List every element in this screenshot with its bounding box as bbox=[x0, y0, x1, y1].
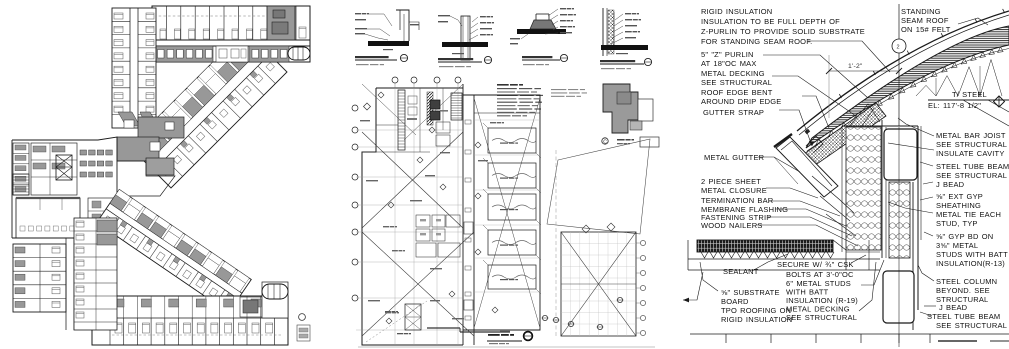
svg-text:SEE STRUCTURAL: SEE STRUCTURAL bbox=[701, 78, 772, 87]
centre core gray blocks bbox=[138, 117, 184, 138]
leader: metal tie bbox=[888, 202, 933, 213]
svg-text:BOARD: BOARD bbox=[721, 297, 749, 306]
diagonal wing B dividers lower side bbox=[97, 209, 106, 223]
svg-text:Z-PURLIN TO PROVIDE SOLID SUBS: Z-PURLIN TO PROVIDE SOLID SUBSTRATE bbox=[701, 27, 865, 36]
large X slope diagonals left bbox=[362, 132, 463, 228]
leader: secure bolts bbox=[851, 255, 866, 263]
leader: fastening strip bbox=[768, 217, 852, 236]
svg-text:EL: 117'-8 1/2": EL: 117'-8 1/2" bbox=[928, 101, 981, 110]
svg-text:STEEL TUBE BEAM: STEEL TUBE BEAM bbox=[927, 312, 1000, 321]
svg-text:2: 2 bbox=[897, 45, 900, 51]
drip edge dark block bbox=[805, 129, 811, 135]
bottom wing dividers bbox=[109, 318, 111, 345]
right detail drawing: curved roof edge section bbox=[683, 4, 1009, 347]
svg-text:METAL DECKING: METAL DECKING bbox=[701, 69, 765, 78]
corridor door marks bbox=[465, 120, 471, 124]
grid bubbles top bbox=[392, 77, 398, 83]
column centerline through wall bbox=[898, 127, 900, 347]
leader: metal decking bottom bbox=[859, 262, 876, 311]
detail 2: expansion joint detail bbox=[438, 15, 450, 16]
corridor double line bbox=[462, 84, 464, 345]
svg-text:J BEAD: J BEAD bbox=[936, 180, 965, 189]
scattered tiny labels bbox=[366, 180, 378, 181]
svg-text:GUTTER STRAP: GUTTER STRAP bbox=[703, 108, 764, 117]
dark activity room bottom bbox=[240, 297, 262, 317]
bottom wing gray toilet blocks bbox=[114, 299, 124, 307]
diagonal wing A gray toilets upper side near corridor bbox=[157, 164, 164, 171]
corridor vertical bbox=[65, 238, 67, 330]
interior walls top-left bbox=[376, 124, 398, 126]
dimension 1ft-2in bbox=[828, 55, 830, 118]
top wing room dividers bbox=[165, 6, 167, 40]
stair ladder 2 bbox=[451, 93, 462, 120]
wall: batt insulation column 1 bbox=[846, 127, 881, 250]
elevator shafts bbox=[430, 100, 440, 109]
diagonal wing B corridor bbox=[106, 209, 238, 299]
svg-text:INSULATION(R-13): INSULATION(R-13) bbox=[936, 259, 1005, 268]
dark equipment room top right bbox=[267, 6, 295, 40]
diagonal wing B gray toilets lower side near corridor bbox=[120, 221, 127, 228]
right section outline bbox=[463, 95, 540, 330]
svg-text:TERMINATION BAR: TERMINATION BAR bbox=[701, 196, 774, 205]
dining room bbox=[16, 198, 80, 238]
lower-left dividers/beds bbox=[13, 257, 40, 259]
svg-text:SECURE W/ ¾" CSK: SECURE W/ ¾" CSK bbox=[777, 260, 854, 269]
leader: insulate cavity bbox=[888, 143, 934, 150]
elevator core with X bbox=[56, 155, 72, 180]
svg-text:SEE STRUCTURAL: SEE STRUCTURAL bbox=[936, 171, 1007, 180]
Z-purlin teeth below band bbox=[816, 139, 822, 145]
svg-text:SHEATHING: SHEATHING bbox=[936, 201, 981, 210]
vertical wing corridor bbox=[129, 8, 131, 128]
tilted quad roof area bbox=[547, 139, 650, 234]
diagonal wing A outline bbox=[129, 30, 287, 188]
vertical wing outline bbox=[112, 8, 156, 128]
leader: roof edge bent bbox=[802, 96, 829, 128]
crickets (X-rect) column bbox=[488, 128, 536, 153]
top wing beds bbox=[160, 29, 166, 39]
right end rooms bottom wing bbox=[262, 282, 288, 318]
wall face lines bbox=[841, 127, 843, 252]
leader: sealant bbox=[752, 254, 788, 271]
diagonal wing B beds lower side bbox=[103, 216, 112, 225]
left sheet: overall floor plan bbox=[12, 6, 310, 345]
svg-text:⅝" SUBSTRATE: ⅝" SUBSTRATE bbox=[721, 288, 780, 297]
scattered diamond markers bbox=[378, 92, 384, 98]
leader: membrane flashing bbox=[775, 209, 846, 226]
svg-text:RIGID INSULATION: RIGID INSULATION bbox=[701, 7, 772, 16]
svg-text:SEAM ROOF: SEAM ROOF bbox=[901, 16, 949, 25]
svg-text:BEYOND. SEE: BEYOND. SEE bbox=[936, 286, 990, 295]
bottom wing beds bbox=[115, 323, 122, 333]
svg-text:ROOF EDGE BENT: ROOF EDGE BENT bbox=[701, 88, 773, 97]
roof plan outline left section bbox=[376, 87, 463, 89]
svg-text:AT 18"OC MAX: AT 18"OC MAX bbox=[701, 59, 757, 68]
svg-text:SEE STRUCTURAL: SEE STRUCTURAL bbox=[936, 140, 1007, 149]
bottom wing outline bbox=[92, 296, 288, 345]
detail 1: parapet detail bbox=[355, 13, 361, 14]
svg-text:STANDING: STANDING bbox=[901, 7, 941, 16]
gray utility rooms near wing B start bbox=[97, 220, 117, 232]
right section row lines bbox=[474, 119, 540, 121]
rooms right of dining bbox=[88, 198, 117, 238]
lower-left rooms outline bbox=[13, 244, 66, 312]
top wing corridor lines bbox=[152, 39, 310, 41]
svg-text:J BEAD: J BEAD bbox=[939, 303, 968, 312]
standing seam roof arcs above band bbox=[797, 11, 1009, 131]
diagonal wing B gray rooms upper side bbox=[110, 195, 127, 211]
leader: metal studs note bbox=[861, 260, 884, 285]
leader: metal gutter bbox=[758, 157, 800, 172]
TPO roof deck dense band bbox=[697, 240, 833, 252]
svg-text:AROUND DRIP EDGE: AROUND DRIP EDGE bbox=[701, 97, 782, 106]
stair ladder left bbox=[13, 174, 29, 195]
svg-text:RIGID INSULATION: RIGID INSULATION bbox=[721, 315, 792, 324]
bottom band gray blocks bbox=[155, 46, 213, 62]
svg-text:5" "Z" PURLIN: 5" "Z" PURLIN bbox=[701, 50, 754, 59]
svg-text:2 PIECE SHEET: 2 PIECE SHEET bbox=[701, 177, 761, 186]
metal decking crosshatch band bbox=[804, 103, 886, 166]
top wing dashed closet line bbox=[154, 15, 265, 17]
wall: batt insulation column 2 bbox=[889, 182, 910, 258]
svg-text:ON 15# FELT: ON 15# FELT bbox=[901, 25, 951, 34]
dashed diagonal bottom left bbox=[366, 301, 427, 342]
leader: steel column bbox=[918, 265, 934, 281]
metal gutter bbox=[776, 137, 838, 197]
bottom sheet border bbox=[690, 333, 1009, 335]
gridded rect lower right bbox=[561, 232, 636, 336]
diagonal wing A corridor bbox=[147, 48, 263, 164]
kitchen rooms bbox=[31, 143, 77, 195]
gutter strap thick edge bbox=[774, 134, 792, 147]
leader: Z purlin bbox=[763, 55, 868, 98]
svg-text:WOOD NAILERS: WOOD NAILERS bbox=[701, 221, 763, 230]
svg-text:FOR STANDING SEAM ROOF.: FOR STANDING SEAM ROOF. bbox=[701, 37, 812, 46]
leader: j bead lower bbox=[924, 305, 936, 307]
servery tables bbox=[80, 150, 87, 155]
diagonal wing A gray rooms (lower-left of corridor) bbox=[136, 143, 156, 163]
grid lines light bbox=[356, 129, 463, 131]
bottom wing corridor bbox=[110, 317, 288, 319]
diagonal wing B outline bbox=[97, 189, 252, 312]
middle sheet: roof plan and details bbox=[352, 8, 659, 347]
leader: 2 piece closure bbox=[766, 188, 818, 198]
kitchen block outline bbox=[12, 137, 117, 238]
svg-text:⅝" EXT GYP: ⅝" EXT GYP bbox=[936, 192, 983, 201]
centre lobby outline bbox=[117, 161, 175, 196]
wall cap / bearing bbox=[842, 125, 918, 127]
bar joist webs bbox=[916, 59, 1002, 96]
leader: substrate bbox=[700, 262, 718, 291]
svg-text:STUD, TYP: STUD, TYP bbox=[936, 219, 978, 228]
svg-text:METAL BAR JOIST: METAL BAR JOIST bbox=[936, 131, 1006, 140]
small gridded room lower left bbox=[405, 304, 421, 330]
detail 3: curb detail bbox=[517, 29, 566, 34]
svg-text:1'-2": 1'-2" bbox=[848, 63, 863, 70]
roof drain symbols bbox=[542, 315, 547, 320]
vertical wing dividers and beds bbox=[112, 20, 130, 22]
svg-text:SEE STRUCTURAL: SEE STRUCTURAL bbox=[786, 313, 857, 322]
steel tube beam upper bbox=[884, 129, 917, 180]
leader: j bead upper bbox=[923, 182, 933, 184]
svg-text:SEALANT: SEALANT bbox=[723, 267, 759, 276]
leader: steel tube beam upper bbox=[920, 162, 933, 166]
stair ladder 1 bbox=[398, 90, 405, 150]
key plan (shaded building outline) bbox=[603, 84, 638, 133]
svg-text:STEEL TUBE BEAM: STEEL TUBE BEAM bbox=[936, 162, 1009, 171]
grid centerline and bubble bbox=[898, 4, 900, 39]
deck flute ticks bbox=[701, 252, 708, 258]
leader: ext gyp bbox=[920, 197, 933, 200]
leader: rigid insulation note bbox=[808, 41, 890, 72]
svg-text:INSULATE CAVITY: INSULATE CAVITY bbox=[936, 149, 1005, 158]
leader: metal decking bbox=[772, 76, 856, 116]
sheet bottom edge line bbox=[358, 346, 655, 348]
oval stair top right bbox=[288, 47, 310, 60]
leader: standing seam roof bbox=[958, 18, 988, 25]
right end room bbox=[295, 6, 297, 40]
svg-text:TPO ROOFING ON: TPO ROOFING ON bbox=[721, 306, 791, 315]
drip edge bend bbox=[806, 136, 823, 153]
general notes block bbox=[497, 84, 509, 86]
left small storage rooms bbox=[13, 143, 29, 195]
leader: gyp bd bbox=[924, 232, 933, 236]
svg-text:STEEL COLUMN: STEEL COLUMN bbox=[936, 277, 997, 286]
leader: steel tube beam lower bbox=[920, 312, 932, 316]
svg-text:STUDS WITH BATT: STUDS WITH BATT bbox=[936, 250, 1008, 259]
svg-text:METAL TIE EACH: METAL TIE EACH bbox=[936, 210, 1001, 219]
joist diagonals between deck and wall bbox=[848, 104, 880, 128]
right edge grid circles bbox=[640, 240, 645, 245]
leader: termination bar bbox=[769, 201, 840, 216]
key symbol circle lower right of plan bbox=[299, 314, 306, 321]
diagonal wing A room dividers upper side bbox=[154, 171, 172, 189]
rigid insulation hatched band (curved) bbox=[806, 26, 1009, 148]
deck support lines bbox=[688, 258, 880, 260]
svg-text:3⅝" METAL: 3⅝" METAL bbox=[936, 241, 978, 250]
left section bottom step edge bbox=[427, 327, 460, 329]
svg-text:T/ STEEL: T/ STEEL bbox=[952, 90, 987, 99]
grid bubbles left bbox=[352, 105, 358, 111]
svg-text:METAL GUTTER: METAL GUTTER bbox=[704, 153, 765, 162]
leader: metal bar joist bbox=[898, 118, 934, 136]
svg-text:SEE STRUCTURAL: SEE STRUCTURAL bbox=[936, 321, 1007, 330]
svg-text:C: C bbox=[603, 140, 607, 146]
joist lines below elevation line bbox=[963, 100, 1009, 126]
leader: tpo arrow bbox=[683, 272, 703, 300]
svg-text:INSULATION TO BE FULL DEPTH OF: INSULATION TO BE FULL DEPTH OF bbox=[701, 17, 840, 26]
dash-dot column line bbox=[555, 150, 557, 336]
plan bottom title bbox=[488, 334, 500, 336]
top wing outline bbox=[152, 6, 310, 62]
angled seat between deck and wall bbox=[833, 240, 846, 270]
steel tube beam lower bbox=[883, 271, 914, 323]
bottom wing dashed line bbox=[112, 334, 282, 336]
gray wedges at wing bottom bbox=[118, 112, 140, 126]
dining tables bbox=[20, 226, 25, 231]
leader: gutter strap bbox=[779, 110, 812, 146]
svg-text:⅝" GYP BD ON: ⅝" GYP BD ON bbox=[936, 232, 993, 241]
svg-text:METAL CLOSURE: METAL CLOSURE bbox=[701, 186, 767, 195]
small rooms cluster bbox=[416, 215, 430, 227]
seam clips on roof arc bbox=[839, 94, 841, 98]
leader: wood nailers bbox=[756, 225, 858, 246]
detail 4: wall flashing detail bbox=[602, 8, 604, 56]
svg-text:BOLTS AT 3'-0"OC: BOLTS AT 3'-0"OC bbox=[786, 270, 854, 279]
mid rooms column bbox=[74, 218, 117, 330]
oval stair bottom right bbox=[262, 284, 288, 299]
diagonal wing A beds upper side bbox=[162, 167, 170, 175]
closure below gutter bbox=[812, 176, 854, 213]
hatched wall strip bbox=[427, 92, 433, 125]
